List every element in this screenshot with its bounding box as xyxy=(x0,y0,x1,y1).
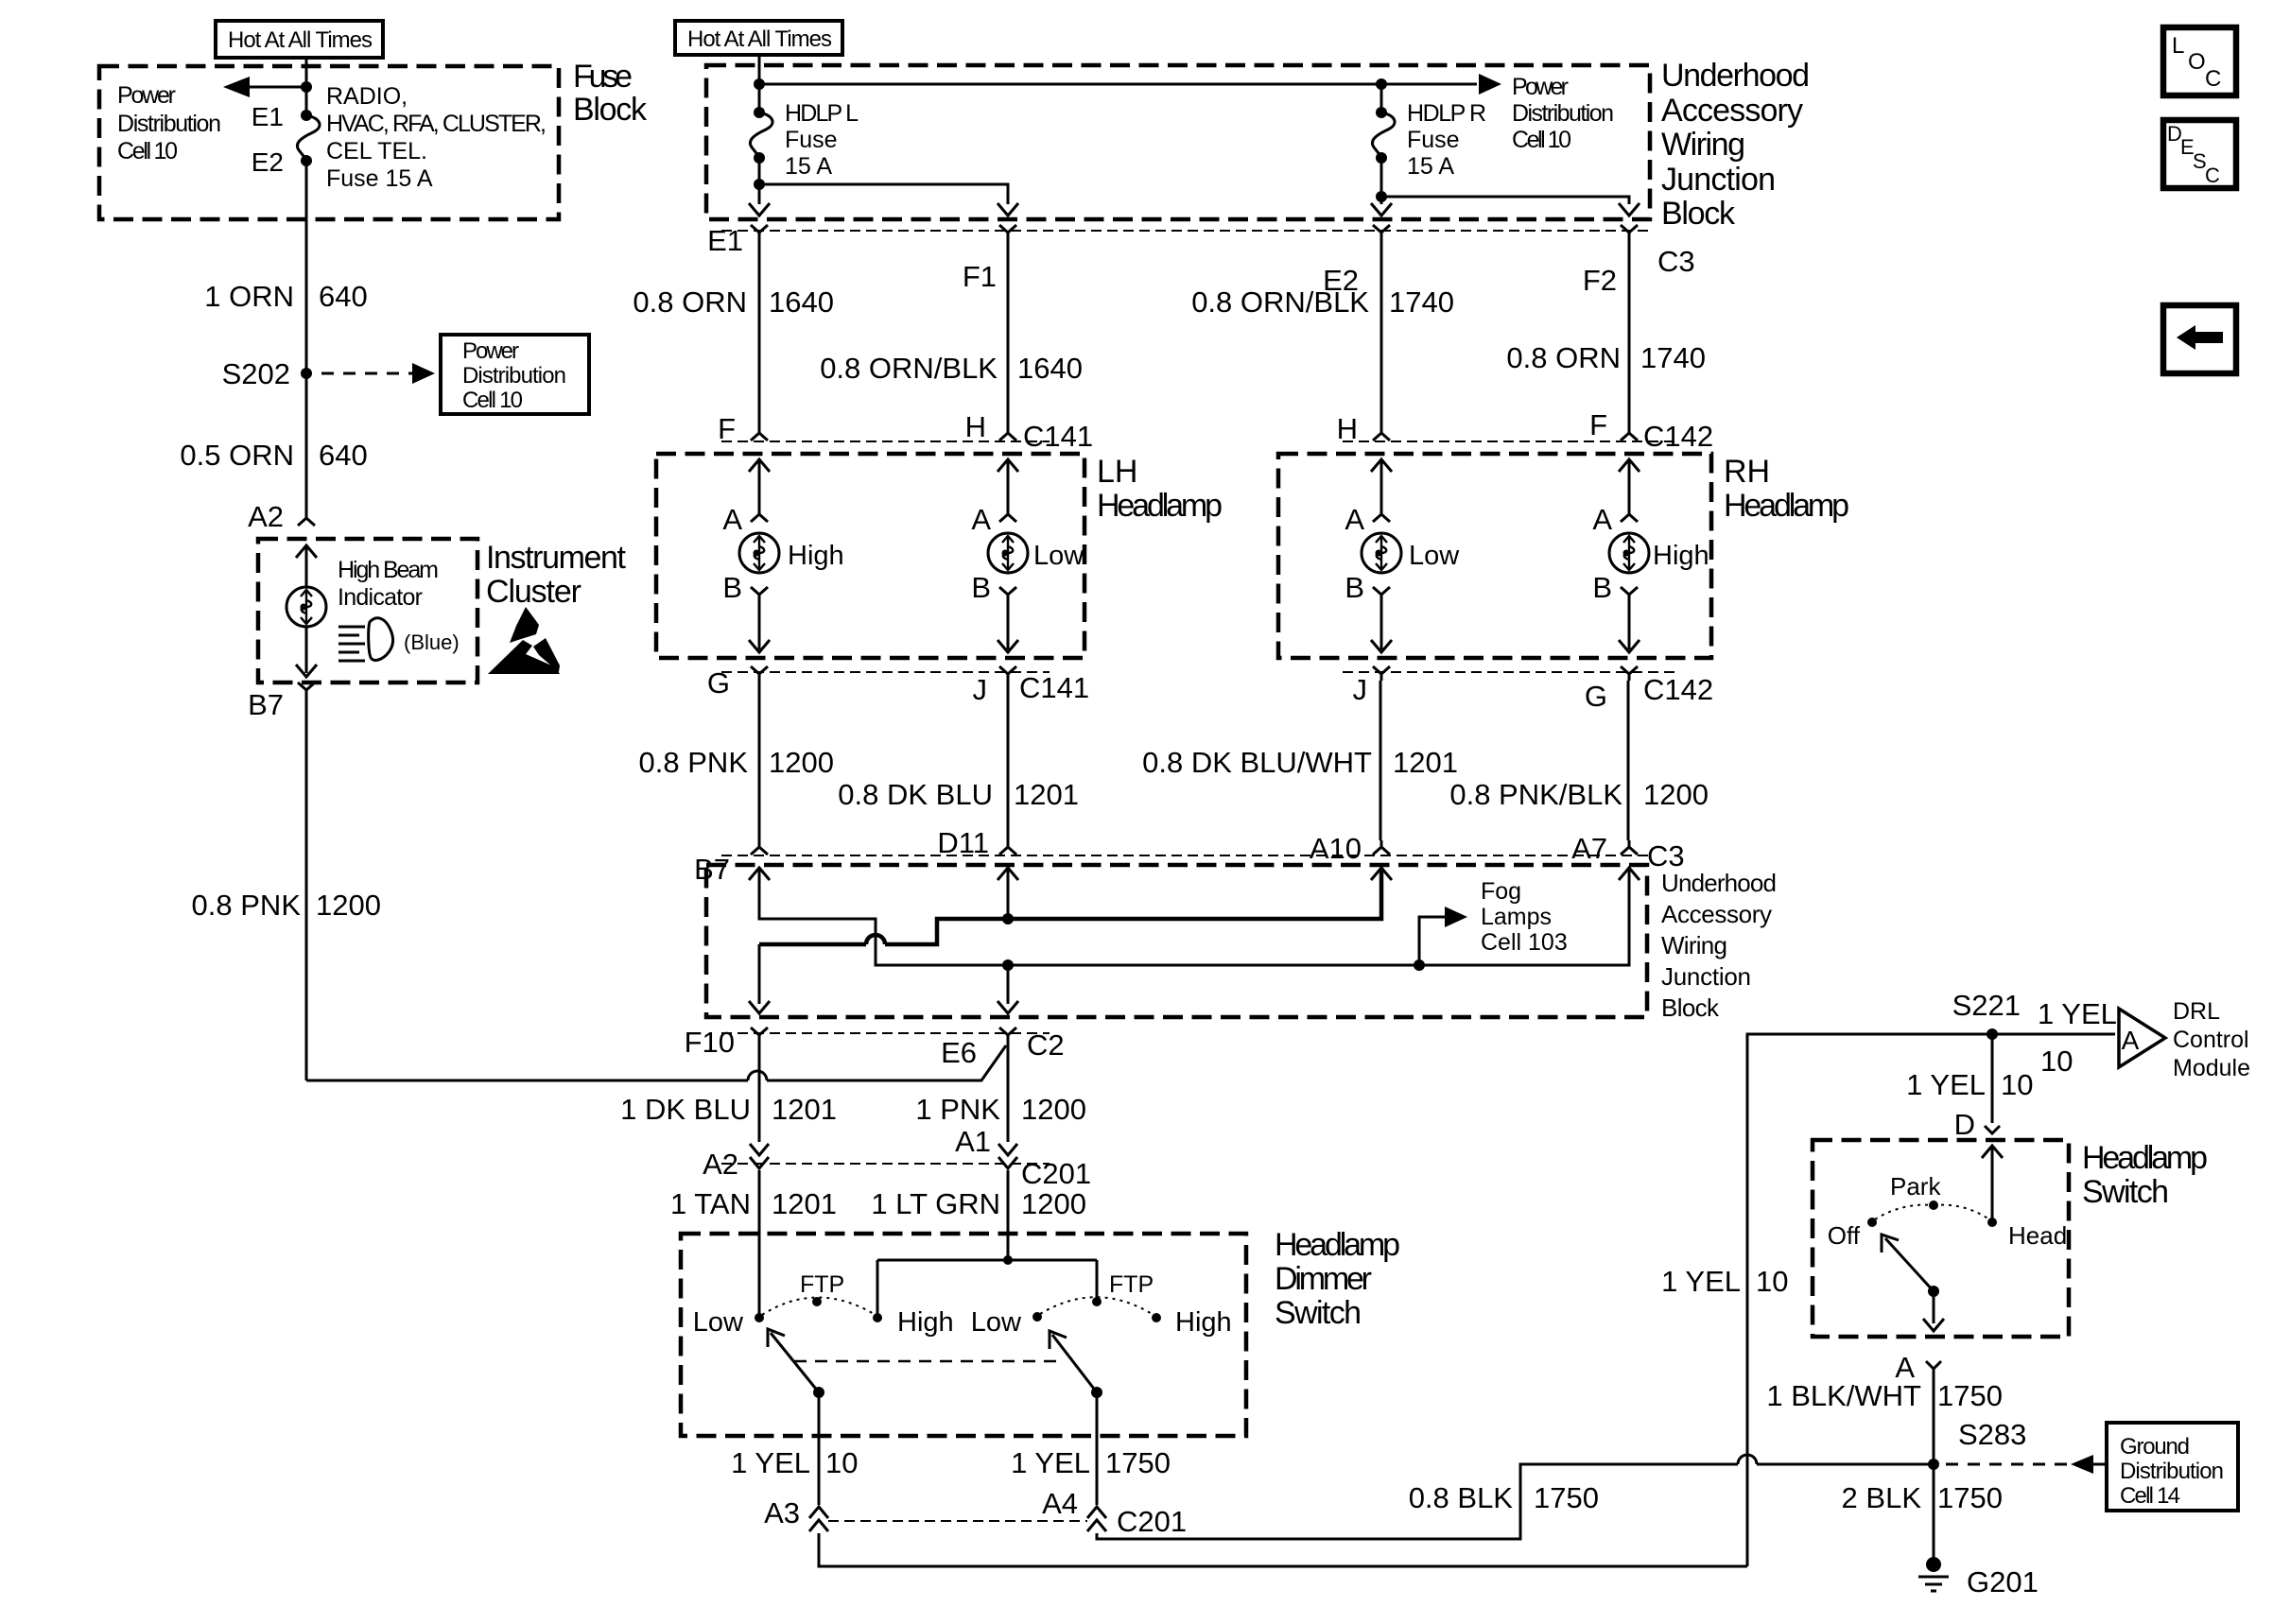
svg-text:1 YEL: 1 YEL xyxy=(731,1446,810,1479)
svg-text:Junction: Junction xyxy=(1661,962,1751,991)
svg-text:640: 640 xyxy=(319,439,368,472)
svg-text:0.8 ORN: 0.8 ORN xyxy=(1506,341,1621,374)
svg-text:0.8 PNK: 0.8 PNK xyxy=(192,889,302,922)
svg-text:Accessory: Accessory xyxy=(1661,93,1803,129)
svg-text:Off: Off xyxy=(1828,1221,1861,1250)
svg-text:Head: Head xyxy=(2008,1221,2067,1250)
svg-text:1750: 1750 xyxy=(1937,1379,2003,1412)
svg-text:C201: C201 xyxy=(1117,1505,1187,1538)
svg-text:Module: Module xyxy=(2173,1055,2250,1081)
svg-text:1 YEL: 1 YEL xyxy=(1011,1446,1090,1479)
svg-text:Underhood: Underhood xyxy=(1661,58,1810,94)
svg-text:RH: RH xyxy=(1724,454,1770,490)
svg-text:Hot At All Times: Hot At All Times xyxy=(228,27,373,53)
svg-text:J: J xyxy=(973,673,988,706)
svg-text:0.8 DK BLU/WHT: 0.8 DK BLU/WHT xyxy=(1142,746,1372,779)
svg-text:Indicator: Indicator xyxy=(338,584,423,611)
svg-text:C201: C201 xyxy=(1021,1157,1091,1190)
svg-text:1 TAN: 1 TAN xyxy=(670,1187,751,1220)
svg-text:Fuse: Fuse xyxy=(785,127,838,153)
svg-text:B7: B7 xyxy=(248,688,284,721)
svg-text:1201: 1201 xyxy=(1014,778,1079,811)
svg-text:High Beam: High Beam xyxy=(338,557,439,583)
svg-text:Low: Low xyxy=(693,1307,744,1338)
svg-text:640: 640 xyxy=(319,280,368,313)
svg-text:Low: Low xyxy=(971,1307,1022,1338)
svg-text:Headlamp: Headlamp xyxy=(1724,488,1849,524)
svg-text:10: 10 xyxy=(2001,1068,2033,1101)
svg-text:Low: Low xyxy=(1033,541,1084,571)
svg-text:A3: A3 xyxy=(764,1496,800,1529)
svg-text:C3: C3 xyxy=(1647,839,1685,872)
svg-text:15 A: 15 A xyxy=(785,153,832,180)
svg-text:(Blue): (Blue) xyxy=(404,631,460,654)
svg-text:1200: 1200 xyxy=(769,746,834,779)
svg-text:E2: E2 xyxy=(252,147,284,177)
svg-text:0.8 DK BLU: 0.8 DK BLU xyxy=(838,778,993,811)
svg-text:F10: F10 xyxy=(685,1026,735,1059)
svg-text:Headlamp: Headlamp xyxy=(1097,488,1223,524)
svg-text:G: G xyxy=(1585,680,1607,713)
svg-text:B: B xyxy=(1345,571,1364,604)
svg-text:G: G xyxy=(707,666,730,700)
svg-text:High: High xyxy=(897,1307,954,1338)
svg-text:Control: Control xyxy=(2173,1027,2249,1053)
svg-text:HDLP R: HDLP R xyxy=(1407,100,1486,127)
svg-text:O: O xyxy=(2188,49,2206,75)
svg-text:1 DK BLU: 1 DK BLU xyxy=(620,1093,751,1126)
svg-text:C142: C142 xyxy=(1643,420,1713,453)
svg-text:C141: C141 xyxy=(1023,420,1093,453)
svg-text:1 YEL: 1 YEL xyxy=(2038,997,2117,1030)
svg-text:J: J xyxy=(1353,673,1368,706)
svg-text:15 A: 15 A xyxy=(1407,153,1454,180)
svg-text:1750: 1750 xyxy=(1534,1481,1599,1514)
svg-text:Distribution: Distribution xyxy=(117,111,221,137)
svg-text:Distribution: Distribution xyxy=(2120,1459,2224,1484)
svg-text:A: A xyxy=(722,503,742,536)
svg-text:A10: A10 xyxy=(1310,832,1362,865)
svg-text:Hot At All Times: Hot At All Times xyxy=(687,26,832,52)
svg-text:Fuse: Fuse xyxy=(573,59,633,95)
svg-text:F1: F1 xyxy=(963,260,997,293)
svg-text:A: A xyxy=(2122,1026,2140,1055)
svg-text:1200: 1200 xyxy=(316,889,381,922)
svg-text:Park: Park xyxy=(1890,1172,1941,1201)
svg-text:B: B xyxy=(1592,571,1612,604)
svg-text:CEL TEL.: CEL TEL. xyxy=(326,138,427,164)
svg-text:0.8 BLK: 0.8 BLK xyxy=(1409,1481,1514,1514)
svg-text:Wiring: Wiring xyxy=(1661,127,1745,163)
svg-text:High: High xyxy=(788,541,844,571)
svg-text:0.8 ORN/BLK: 0.8 ORN/BLK xyxy=(820,352,998,385)
svg-text:A: A xyxy=(1592,503,1612,536)
svg-text:Cell 10: Cell 10 xyxy=(1512,127,1571,153)
svg-text:1 PNK: 1 PNK xyxy=(915,1093,1000,1126)
svg-text:A: A xyxy=(971,503,991,536)
svg-text:1201: 1201 xyxy=(772,1187,837,1220)
svg-text:1740: 1740 xyxy=(1389,285,1454,319)
svg-text:F: F xyxy=(1589,408,1607,441)
svg-text:Ground: Ground xyxy=(2120,1434,2190,1460)
svg-text:1201: 1201 xyxy=(772,1093,837,1126)
svg-text:0.8 PNK/BLK: 0.8 PNK/BLK xyxy=(1449,778,1622,811)
svg-text:0.8 PNK: 0.8 PNK xyxy=(639,746,749,779)
svg-text:S221: S221 xyxy=(1952,989,2021,1022)
svg-text:Underhood: Underhood xyxy=(1661,869,1777,897)
svg-text:RADIO,: RADIO, xyxy=(326,83,408,110)
svg-text:A: A xyxy=(1345,503,1364,536)
svg-text:C: C xyxy=(2205,66,2221,92)
svg-text:Block: Block xyxy=(573,92,648,128)
svg-text:1200: 1200 xyxy=(1021,1093,1086,1126)
svg-text:High: High xyxy=(1653,541,1709,571)
svg-text:E1: E1 xyxy=(252,102,284,131)
svg-text:E6: E6 xyxy=(941,1036,977,1069)
svg-text:1 BLK/WHT: 1 BLK/WHT xyxy=(1766,1379,1921,1412)
svg-text:10: 10 xyxy=(2040,1045,2073,1078)
svg-text:1750: 1750 xyxy=(1105,1446,1171,1479)
svg-text:L: L xyxy=(2172,33,2184,59)
svg-text:1 ORN: 1 ORN xyxy=(204,280,294,313)
svg-text:1201: 1201 xyxy=(1393,746,1458,779)
svg-text:Block: Block xyxy=(1661,196,1736,232)
svg-text:F2: F2 xyxy=(1583,264,1617,297)
svg-text:Low: Low xyxy=(1409,541,1460,571)
svg-text:Junction: Junction xyxy=(1661,162,1776,198)
svg-text:S202: S202 xyxy=(222,357,290,390)
svg-text:0.8 ORN/BLK: 0.8 ORN/BLK xyxy=(1191,285,1369,319)
svg-text:1640: 1640 xyxy=(769,285,834,319)
svg-text:C3: C3 xyxy=(1657,245,1695,278)
svg-text:B: B xyxy=(722,571,742,604)
svg-text:1200: 1200 xyxy=(1643,778,1709,811)
svg-text:A7: A7 xyxy=(1571,832,1607,865)
svg-text:F: F xyxy=(718,412,736,445)
svg-text:Headlamp: Headlamp xyxy=(2082,1140,2208,1176)
svg-text:Power: Power xyxy=(1512,74,1569,100)
svg-text:H: H xyxy=(1337,412,1358,445)
svg-text:Distribution: Distribution xyxy=(1512,100,1614,127)
svg-text:1 YEL: 1 YEL xyxy=(1906,1068,1986,1101)
svg-text:A1: A1 xyxy=(955,1125,991,1158)
svg-text:Cell 14: Cell 14 xyxy=(2120,1483,2180,1509)
svg-text:E1: E1 xyxy=(707,224,743,257)
svg-text:2 BLK: 2 BLK xyxy=(1842,1481,1922,1514)
svg-text:FTP: FTP xyxy=(1109,1271,1154,1298)
svg-text:Fuse 15 A: Fuse 15 A xyxy=(326,165,433,192)
svg-text:Cell 103: Cell 103 xyxy=(1481,929,1568,956)
svg-text:Cluster: Cluster xyxy=(486,574,581,610)
svg-text:A2: A2 xyxy=(248,500,284,533)
svg-text:H: H xyxy=(965,410,986,443)
svg-text:1640: 1640 xyxy=(1017,352,1083,385)
svg-text:Block: Block xyxy=(1661,993,1720,1022)
svg-text:Distribution: Distribution xyxy=(462,363,566,389)
svg-text:HVAC, RFA, CLUSTER,: HVAC, RFA, CLUSTER, xyxy=(326,111,547,137)
svg-text:Fuse: Fuse xyxy=(1407,127,1460,153)
svg-text:Power: Power xyxy=(117,82,176,109)
svg-text:Dimmer: Dimmer xyxy=(1275,1261,1372,1297)
svg-text:HDLP L: HDLP L xyxy=(785,100,859,127)
svg-text:FTP: FTP xyxy=(800,1271,844,1298)
svg-text:C2: C2 xyxy=(1027,1028,1065,1062)
svg-text:1 YEL: 1 YEL xyxy=(1661,1265,1741,1298)
svg-text:Power: Power xyxy=(462,338,519,364)
svg-text:A2: A2 xyxy=(703,1148,738,1181)
svg-text:A4: A4 xyxy=(1042,1487,1078,1520)
svg-text:Lamps: Lamps xyxy=(1481,904,1552,930)
svg-text:Instrument: Instrument xyxy=(486,540,627,576)
svg-text:Fog: Fog xyxy=(1481,878,1521,905)
svg-text:B: B xyxy=(971,571,991,604)
svg-text:1750: 1750 xyxy=(1937,1481,2003,1514)
svg-text:Wiring: Wiring xyxy=(1661,931,1727,959)
svg-text:Cell 10: Cell 10 xyxy=(117,138,178,164)
svg-text:Switch: Switch xyxy=(2082,1174,2169,1210)
svg-text:1 LT GRN: 1 LT GRN xyxy=(871,1187,1000,1220)
svg-text:Cell 10: Cell 10 xyxy=(462,388,523,413)
svg-text:D11: D11 xyxy=(937,826,989,859)
svg-text:0.5 ORN: 0.5 ORN xyxy=(180,439,294,472)
svg-text:DRL: DRL xyxy=(2173,998,2220,1025)
svg-text:10: 10 xyxy=(825,1446,858,1479)
svg-text:Accessory: Accessory xyxy=(1661,900,1772,928)
svg-text:Headlamp: Headlamp xyxy=(1275,1227,1400,1263)
svg-text:Switch: Switch xyxy=(1275,1295,1362,1331)
svg-text:1740: 1740 xyxy=(1640,341,1706,374)
svg-text:0.8 ORN: 0.8 ORN xyxy=(633,285,747,319)
svg-text:C142: C142 xyxy=(1643,673,1713,706)
svg-text:B7: B7 xyxy=(694,853,730,886)
svg-text:LH: LH xyxy=(1097,454,1137,490)
svg-text:1200: 1200 xyxy=(1021,1187,1086,1220)
svg-text:C141: C141 xyxy=(1019,671,1089,704)
svg-text:D: D xyxy=(1954,1108,1975,1141)
svg-text:G201: G201 xyxy=(1967,1565,2039,1598)
svg-text:C: C xyxy=(2205,164,2220,187)
svg-text:S283: S283 xyxy=(1958,1418,2026,1451)
svg-text:High: High xyxy=(1175,1307,1232,1338)
svg-text:10: 10 xyxy=(1756,1265,1788,1298)
